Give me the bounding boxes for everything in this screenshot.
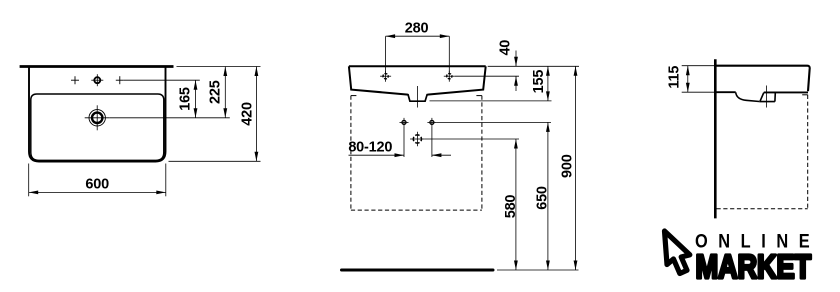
extension line from bar [177, 66, 261, 68]
faucet hole left (front) [380, 71, 391, 82]
mounting hole left [400, 118, 409, 127]
dim 225 [207, 67, 225, 118]
mounting hole right [427, 118, 436, 127]
dim 40 [498, 40, 517, 91]
dashed concealed box (front) [351, 96, 482, 211]
basin bowl underside (side) [736, 92, 776, 101]
svg-text:580: 580 [503, 195, 519, 219]
svg-text:115: 115 [666, 66, 682, 89]
svg-text:MARKET: MARKET [696, 249, 812, 286]
extension: mounting holes to 650 [436, 121, 551, 123]
drain outlet (front) [408, 86, 427, 108]
svg-text:600: 600 [85, 176, 109, 192]
logo text MARKET [696, 249, 812, 286]
svg-text:225: 225 [207, 80, 223, 104]
svg-text:165: 165 [178, 87, 194, 111]
washbasin outer outline [29, 68, 166, 162]
svg-text:40: 40 [498, 40, 514, 56]
dim 600 extension lines [28, 164, 30, 197]
dim 115 [666, 66, 687, 93]
svg-text:280: 280 [405, 20, 429, 36]
drop lines from mounting holes [403, 127, 405, 157]
extension: basin top to 900 [488, 65, 579, 67]
basin inner rounded rect [31, 94, 164, 160]
dim 420 [240, 67, 257, 162]
floor line (thick) [342, 269, 494, 272]
drain position symbol (front) [410, 132, 425, 147]
dim 650 [535, 122, 551, 270]
basin side profile [717, 66, 810, 93]
logo cursor arrow [665, 231, 690, 274]
dim 115 extension lines [682, 65, 714, 67]
left plus mark [71, 76, 79, 84]
drain centerline (side) [765, 86, 767, 108]
svg-text:80-120: 80-120 [348, 139, 392, 155]
extension: drain symbol to 580 [425, 138, 519, 140]
dim 600 [29, 176, 166, 192]
extension: outlet bottom to 155 [430, 100, 552, 102]
svg-text:650: 650 [535, 186, 551, 210]
extension line from drain [110, 117, 230, 119]
svg-text:900: 900 [560, 154, 576, 178]
dim 80-120 [348, 139, 451, 155]
wall bar (back edge) [20, 65, 174, 68]
right plus mark [116, 76, 124, 84]
dim 280 [386, 20, 450, 36]
dim 155 [531, 66, 548, 101]
svg-text:155: 155 [531, 70, 547, 94]
basin front outline [349, 66, 486, 94]
extension: faucet line to 40 [455, 75, 519, 77]
logo text ONLINE [695, 230, 810, 252]
faucet hole (top view) [91, 74, 103, 86]
svg-text:420: 420 [240, 102, 256, 126]
drain (top view) [85, 105, 110, 130]
wall line [714, 59, 717, 218]
dashed concealed box (side) [717, 95, 808, 209]
dim 580 [503, 139, 519, 270]
faucet hole right (front) [444, 71, 455, 82]
dim 165 [178, 80, 196, 118]
extension line from faucet [124, 79, 200, 81]
extension line from front edge [169, 160, 261, 162]
floor extension line [497, 269, 579, 271]
dim 280 extension lines [385, 36, 387, 73]
dim 900 [560, 66, 576, 270]
